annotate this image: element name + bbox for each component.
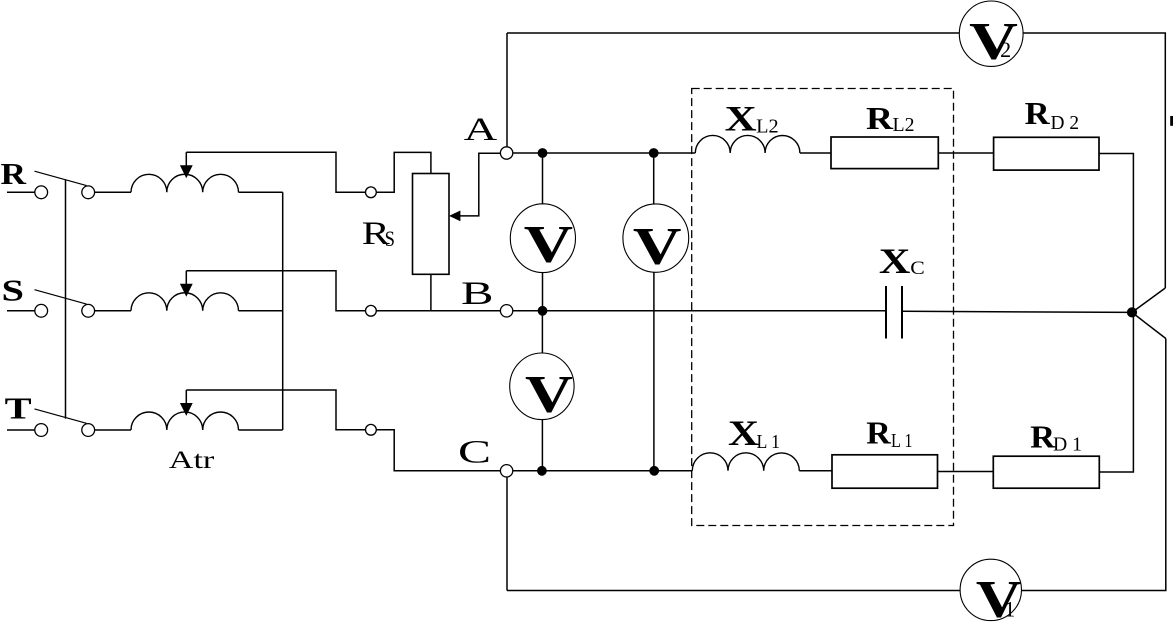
svg-text:T: T (5, 391, 32, 426)
svg-text:L 1: L 1 (757, 431, 781, 453)
svg-text:L2: L2 (756, 115, 779, 137)
svg-text:R: R (866, 100, 894, 136)
svg-text:X: X (728, 413, 759, 453)
svg-text:V: V (524, 216, 573, 274)
svg-text:S: S (2, 273, 25, 308)
svg-text:A: A (464, 112, 498, 148)
svg-text:R: R (1025, 95, 1051, 131)
svg-text:L 1: L 1 (891, 430, 913, 452)
svg-text:X: X (879, 241, 911, 281)
svg-text:D 2: D 2 (1051, 112, 1080, 134)
svg-text:L2: L2 (893, 114, 915, 136)
svg-text:Atr: Atr (169, 445, 215, 474)
svg-text:R: R (1, 156, 27, 191)
svg-text:C: C (458, 435, 491, 471)
svg-text:V: V (525, 366, 573, 424)
svg-text:S: S (385, 226, 395, 251)
svg-text:C: C (910, 258, 925, 279)
svg-text:V: V (633, 218, 682, 276)
svg-text:R: R (866, 415, 891, 451)
svg-text:B: B (461, 276, 494, 312)
svg-text:D 1: D 1 (1053, 434, 1082, 456)
svg-text:2: 2 (1000, 37, 1011, 62)
svg-text:1: 1 (1004, 597, 1015, 622)
svg-text:X: X (725, 99, 757, 139)
